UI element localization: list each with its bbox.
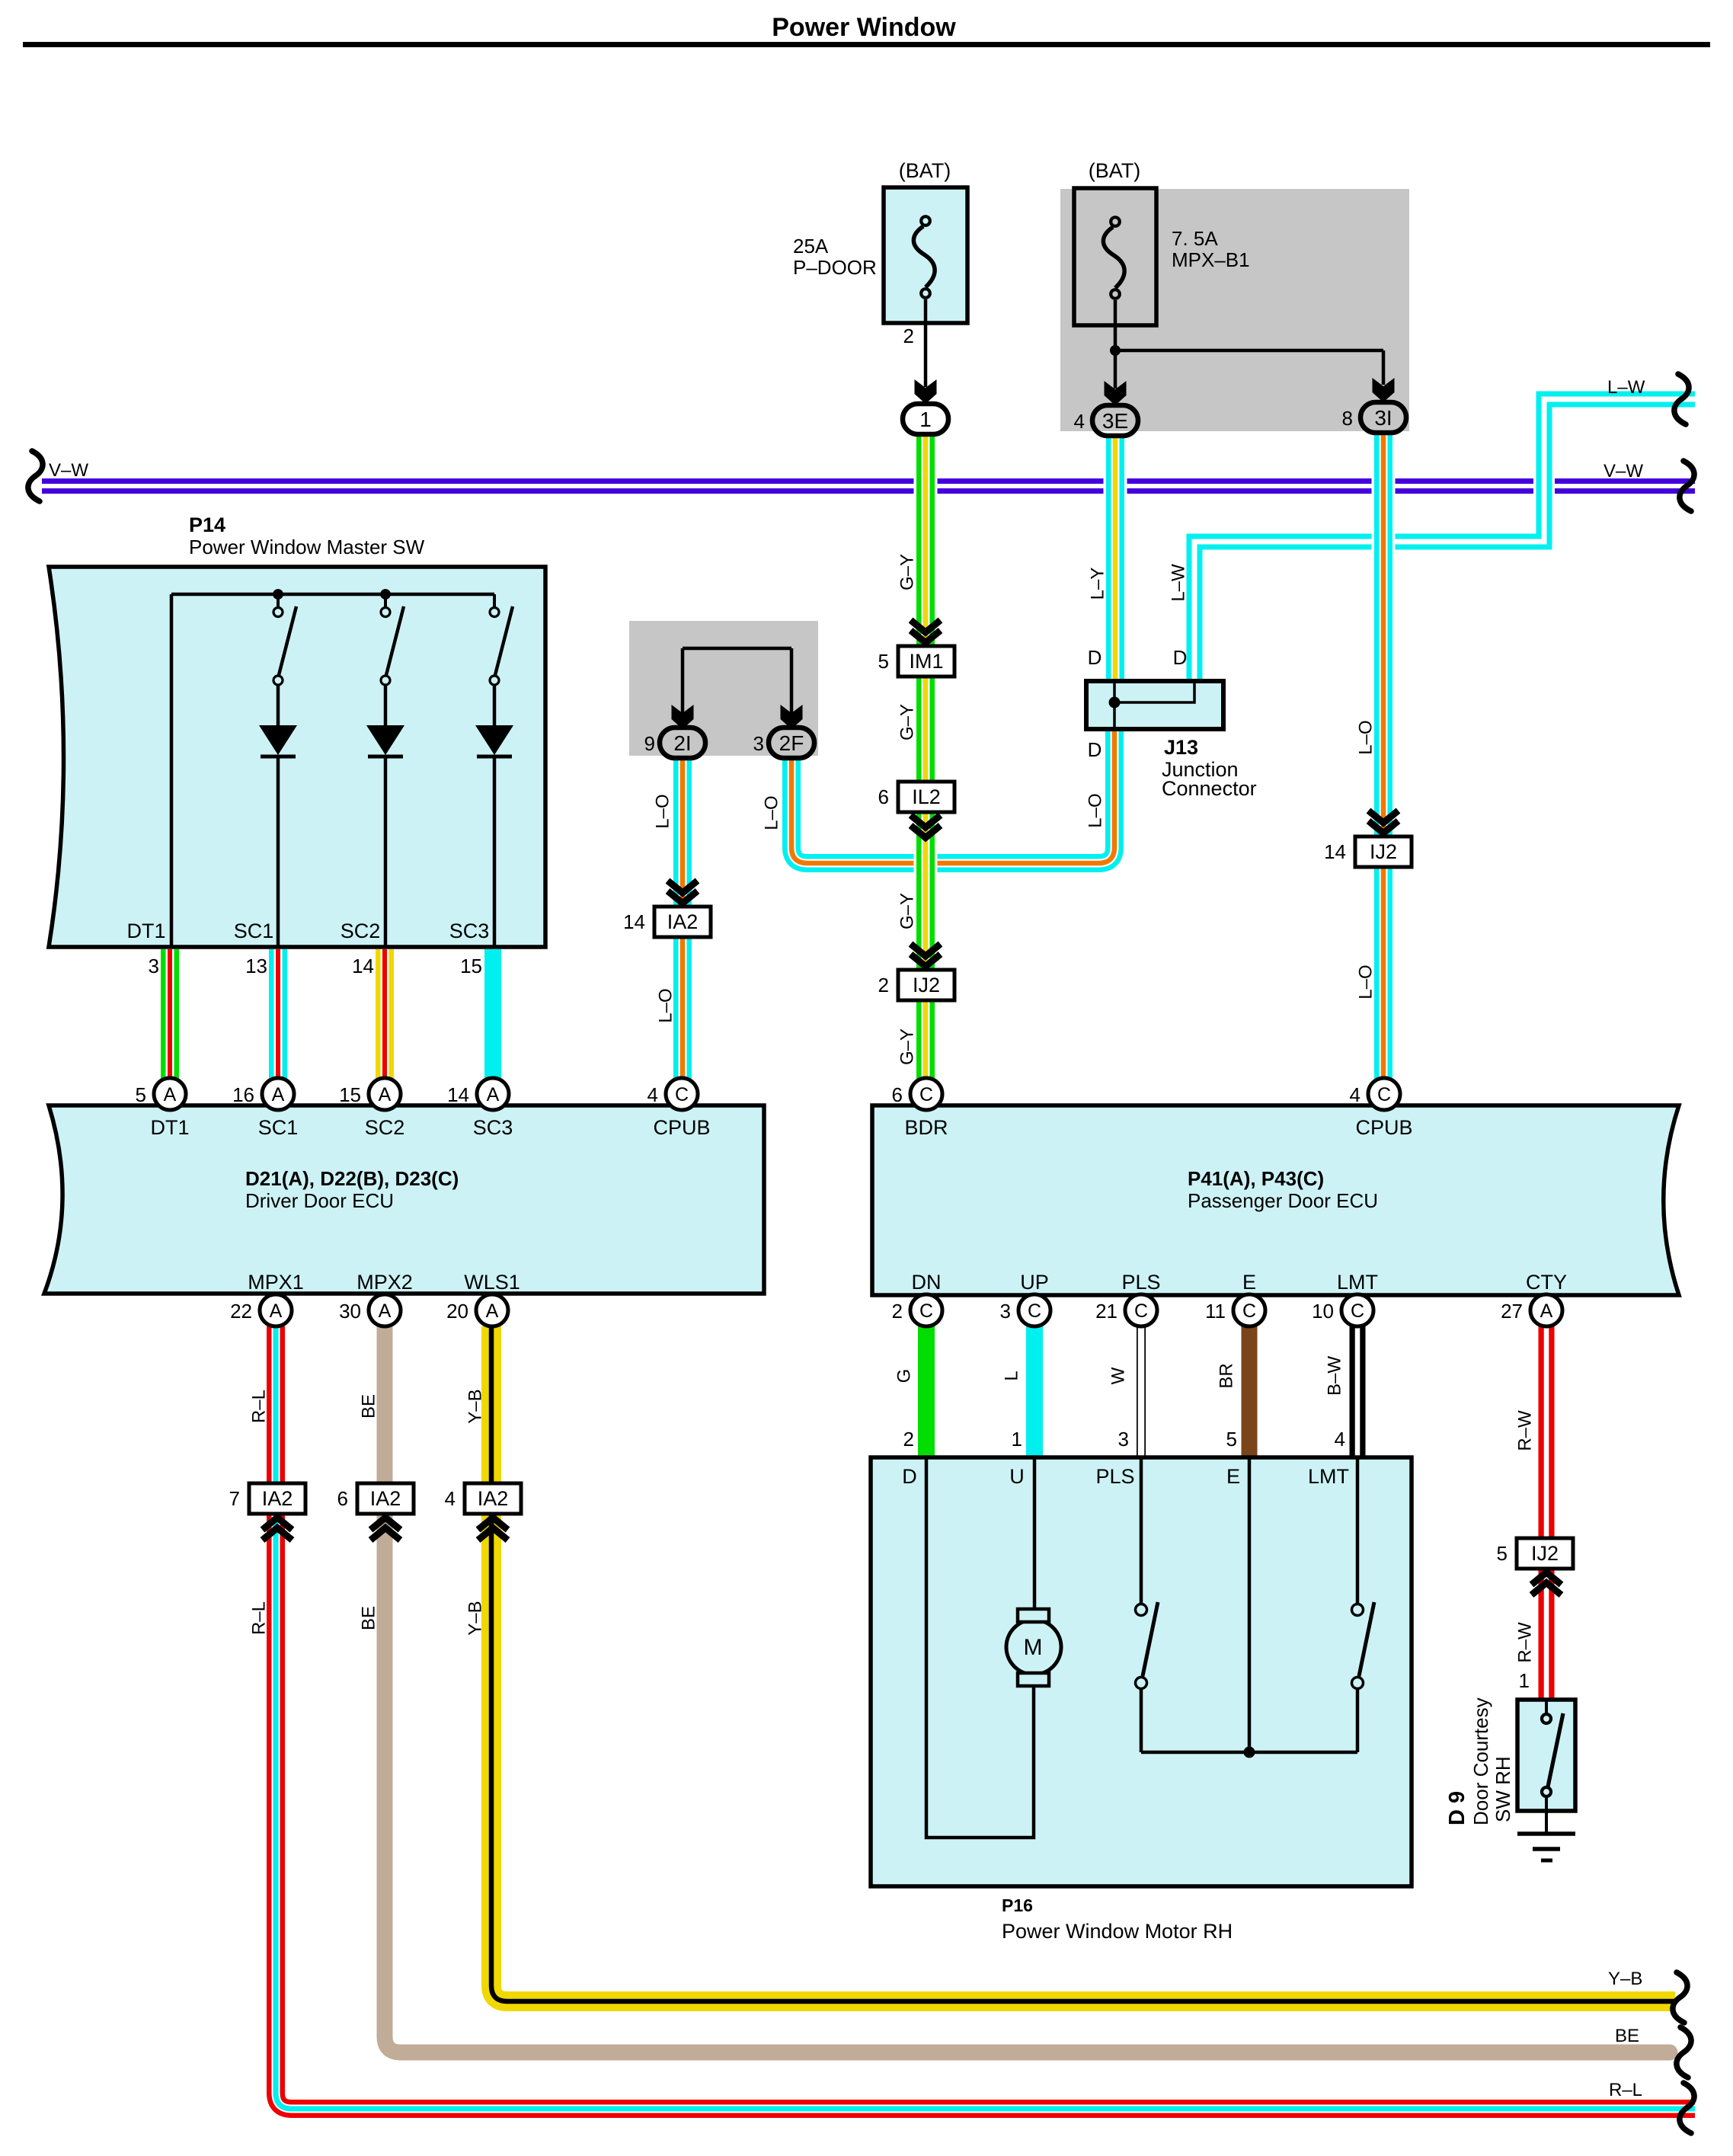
svg-text:L–W: L–W: [1607, 377, 1645, 398]
svg-text:14: 14: [623, 910, 645, 933]
svg-text:16: 16: [232, 1083, 254, 1106]
svg-text:D: D: [902, 1465, 917, 1488]
svg-text:IA2: IA2: [478, 1487, 509, 1510]
svg-text:15: 15: [460, 955, 482, 977]
svg-text:3: 3: [149, 955, 159, 977]
svg-text:6: 6: [337, 1487, 348, 1510]
svg-text:2: 2: [903, 1428, 914, 1451]
svg-text:R–W: R–W: [1515, 1622, 1536, 1663]
svg-text:2I: 2I: [673, 731, 691, 755]
svg-text:G: G: [894, 1369, 915, 1383]
svg-text:L–O: L–O: [1086, 793, 1106, 827]
svg-text:SC1: SC1: [234, 920, 274, 942]
svg-text:CPUB: CPUB: [1355, 1116, 1412, 1139]
svg-text:A: A: [487, 1084, 500, 1105]
svg-text:D: D: [1173, 646, 1188, 669]
svg-text:(BAT): (BAT): [1089, 159, 1141, 182]
svg-text:SC2: SC2: [365, 1116, 405, 1139]
svg-text:L–W: L–W: [1169, 564, 1189, 602]
svg-text:7: 7: [229, 1487, 240, 1510]
svg-text:R–L: R–L: [249, 1601, 270, 1635]
svg-text:V–W: V–W: [1604, 461, 1643, 481]
svg-text:BE: BE: [359, 1606, 379, 1630]
svg-text:IA2: IA2: [370, 1487, 401, 1510]
svg-text:U: U: [1009, 1465, 1025, 1488]
svg-text:C: C: [1028, 1300, 1041, 1322]
svg-text:A: A: [270, 1300, 283, 1322]
svg-text:MPX–B1: MPX–B1: [1172, 248, 1250, 271]
svg-text:P–DOOR: P–DOOR: [793, 256, 877, 279]
svg-text:G–Y: G–Y: [897, 893, 918, 929]
svg-text:D21(A), D22(B), D23(C): D21(A), D22(B), D23(C): [245, 1167, 459, 1190]
svg-text:DT1: DT1: [150, 1116, 189, 1139]
svg-text:5: 5: [1497, 1542, 1508, 1565]
svg-text:IM1: IM1: [909, 650, 943, 673]
svg-text:14: 14: [1324, 840, 1346, 863]
svg-text:R–W: R–W: [1515, 1410, 1536, 1451]
svg-text:Power Window Master SW: Power Window Master SW: [189, 536, 425, 558]
svg-text:WLS1: WLS1: [464, 1271, 520, 1294]
svg-text:Power Window Motor RH: Power Window Motor RH: [1002, 1920, 1233, 1943]
svg-text:G–Y: G–Y: [897, 1028, 918, 1065]
svg-text:IL2: IL2: [912, 785, 941, 808]
svg-text:3I: 3I: [1374, 406, 1392, 430]
svg-text:25A: 25A: [793, 235, 829, 258]
svg-text:Door Courtesy: Door Courtesy: [1469, 1697, 1492, 1825]
svg-text:MPX1: MPX1: [248, 1271, 304, 1294]
svg-text:5: 5: [878, 650, 889, 673]
svg-text:W: W: [1108, 1367, 1129, 1384]
svg-text:1: 1: [1012, 1428, 1022, 1451]
svg-text:IJ2: IJ2: [1531, 1542, 1559, 1565]
svg-text:8: 8: [1342, 407, 1353, 430]
svg-text:P41(A), P43(C): P41(A), P43(C): [1188, 1167, 1324, 1190]
svg-text:D: D: [1088, 738, 1102, 761]
svg-text:CTY: CTY: [1526, 1271, 1567, 1294]
svg-text:P14: P14: [189, 513, 225, 536]
svg-text:Driver Door ECU: Driver Door ECU: [245, 1189, 394, 1212]
svg-text:SC1: SC1: [258, 1116, 299, 1139]
svg-text:4: 4: [647, 1083, 658, 1106]
svg-text:G–Y: G–Y: [897, 704, 918, 741]
svg-text:C: C: [919, 1300, 933, 1322]
svg-text:C: C: [1134, 1300, 1148, 1322]
svg-text:LMT: LMT: [1308, 1465, 1349, 1488]
svg-text:R–L: R–L: [249, 1390, 270, 1423]
svg-text:4: 4: [1074, 410, 1085, 433]
svg-text:3: 3: [1000, 1300, 1011, 1323]
svg-text:L–O: L–O: [1356, 720, 1376, 754]
svg-text:BR: BR: [1217, 1363, 1237, 1388]
svg-text:Y–B: Y–B: [465, 1389, 486, 1423]
svg-text:L–O: L–O: [762, 795, 782, 830]
svg-text:L–O: L–O: [656, 988, 676, 1022]
svg-text:A: A: [379, 1300, 392, 1322]
svg-text:(BAT): (BAT): [899, 159, 951, 182]
svg-text:PLS: PLS: [1121, 1271, 1160, 1294]
svg-text:2: 2: [878, 974, 889, 996]
svg-text:A: A: [272, 1084, 285, 1105]
svg-text:DT1: DT1: [126, 920, 165, 942]
svg-text:Power Window: Power Window: [772, 13, 956, 42]
svg-text:A: A: [379, 1084, 392, 1105]
svg-text:11: 11: [1205, 1300, 1226, 1323]
svg-text:4: 4: [445, 1487, 456, 1510]
svg-text:Connector: Connector: [1162, 777, 1257, 800]
svg-text:D 9: D 9: [1445, 1791, 1469, 1825]
svg-text:13: 13: [245, 955, 267, 977]
svg-text:A: A: [486, 1300, 499, 1322]
svg-text:1: 1: [919, 408, 932, 431]
svg-text:E: E: [1226, 1465, 1240, 1488]
svg-text:D: D: [1088, 646, 1102, 669]
svg-text:9: 9: [644, 732, 655, 755]
svg-text:4: 4: [1335, 1428, 1345, 1451]
svg-text:V–W: V–W: [49, 460, 88, 481]
svg-text:L: L: [1002, 1371, 1022, 1380]
svg-text:14: 14: [447, 1083, 469, 1106]
svg-text:J13: J13: [1164, 736, 1198, 759]
svg-text:6: 6: [892, 1083, 903, 1106]
svg-text:IA2: IA2: [667, 910, 699, 933]
svg-text:LMT: LMT: [1337, 1271, 1378, 1294]
svg-text:5: 5: [1226, 1428, 1237, 1451]
svg-text:SW RH: SW RH: [1492, 1756, 1514, 1822]
svg-text:UP: UP: [1020, 1271, 1049, 1294]
svg-text:IA2: IA2: [262, 1487, 293, 1510]
svg-text:L–Y: L–Y: [1088, 568, 1108, 600]
svg-text:E: E: [1242, 1271, 1256, 1294]
svg-text:C: C: [1351, 1300, 1364, 1322]
svg-text:SC3: SC3: [473, 1116, 513, 1139]
svg-text:BE: BE: [359, 1394, 379, 1419]
svg-text:10: 10: [1312, 1300, 1334, 1323]
svg-text:2: 2: [892, 1300, 903, 1323]
svg-text:L–O: L–O: [1356, 964, 1376, 999]
svg-text:7. 5A: 7. 5A: [1172, 227, 1218, 250]
svg-text:22: 22: [230, 1300, 252, 1323]
svg-text:R–L: R–L: [1609, 2080, 1642, 2100]
svg-text:Y–B: Y–B: [465, 1601, 486, 1635]
svg-text:20: 20: [446, 1300, 468, 1323]
svg-text:3: 3: [753, 732, 764, 755]
svg-text:Passenger Door ECU: Passenger Door ECU: [1188, 1189, 1378, 1212]
svg-text:21: 21: [1095, 1300, 1117, 1323]
svg-text:IJ2: IJ2: [913, 974, 940, 996]
svg-text:BE: BE: [1615, 2026, 1639, 2046]
svg-text:2F: 2F: [779, 731, 804, 755]
svg-text:C: C: [919, 1084, 933, 1105]
svg-text:IJ2: IJ2: [1370, 840, 1397, 863]
svg-text:C: C: [1242, 1300, 1256, 1322]
svg-text:SC3: SC3: [449, 920, 490, 942]
svg-text:G–Y: G–Y: [897, 554, 918, 590]
svg-text:CPUB: CPUB: [653, 1116, 710, 1139]
svg-text:1: 1: [1519, 1669, 1530, 1692]
svg-text:DN: DN: [912, 1271, 942, 1294]
svg-text:BDR: BDR: [904, 1116, 948, 1139]
svg-text:15: 15: [339, 1083, 361, 1106]
svg-text:B–W: B–W: [1325, 1356, 1345, 1396]
svg-text:SC2: SC2: [341, 920, 381, 942]
svg-text:L–O: L–O: [653, 794, 673, 828]
svg-text:3E: 3E: [1102, 409, 1128, 433]
svg-text:3: 3: [1118, 1428, 1129, 1451]
svg-text:6: 6: [878, 785, 889, 808]
svg-text:14: 14: [352, 955, 374, 977]
svg-text:MPX2: MPX2: [357, 1271, 413, 1294]
svg-text:C: C: [1377, 1084, 1391, 1105]
svg-text:27: 27: [1501, 1300, 1523, 1323]
svg-text:A: A: [1540, 1300, 1553, 1322]
svg-text:A: A: [164, 1084, 177, 1105]
svg-text:4: 4: [1350, 1083, 1361, 1106]
svg-text:30: 30: [339, 1300, 361, 1323]
svg-text:5: 5: [136, 1083, 146, 1106]
svg-text:C: C: [675, 1084, 689, 1105]
svg-text:2: 2: [903, 325, 914, 347]
svg-text:PLS: PLS: [1095, 1465, 1134, 1488]
svg-text:P16: P16: [1002, 1895, 1033, 1915]
svg-text:M: M: [1024, 1635, 1043, 1660]
svg-text:Y–B: Y–B: [1608, 1969, 1642, 1989]
